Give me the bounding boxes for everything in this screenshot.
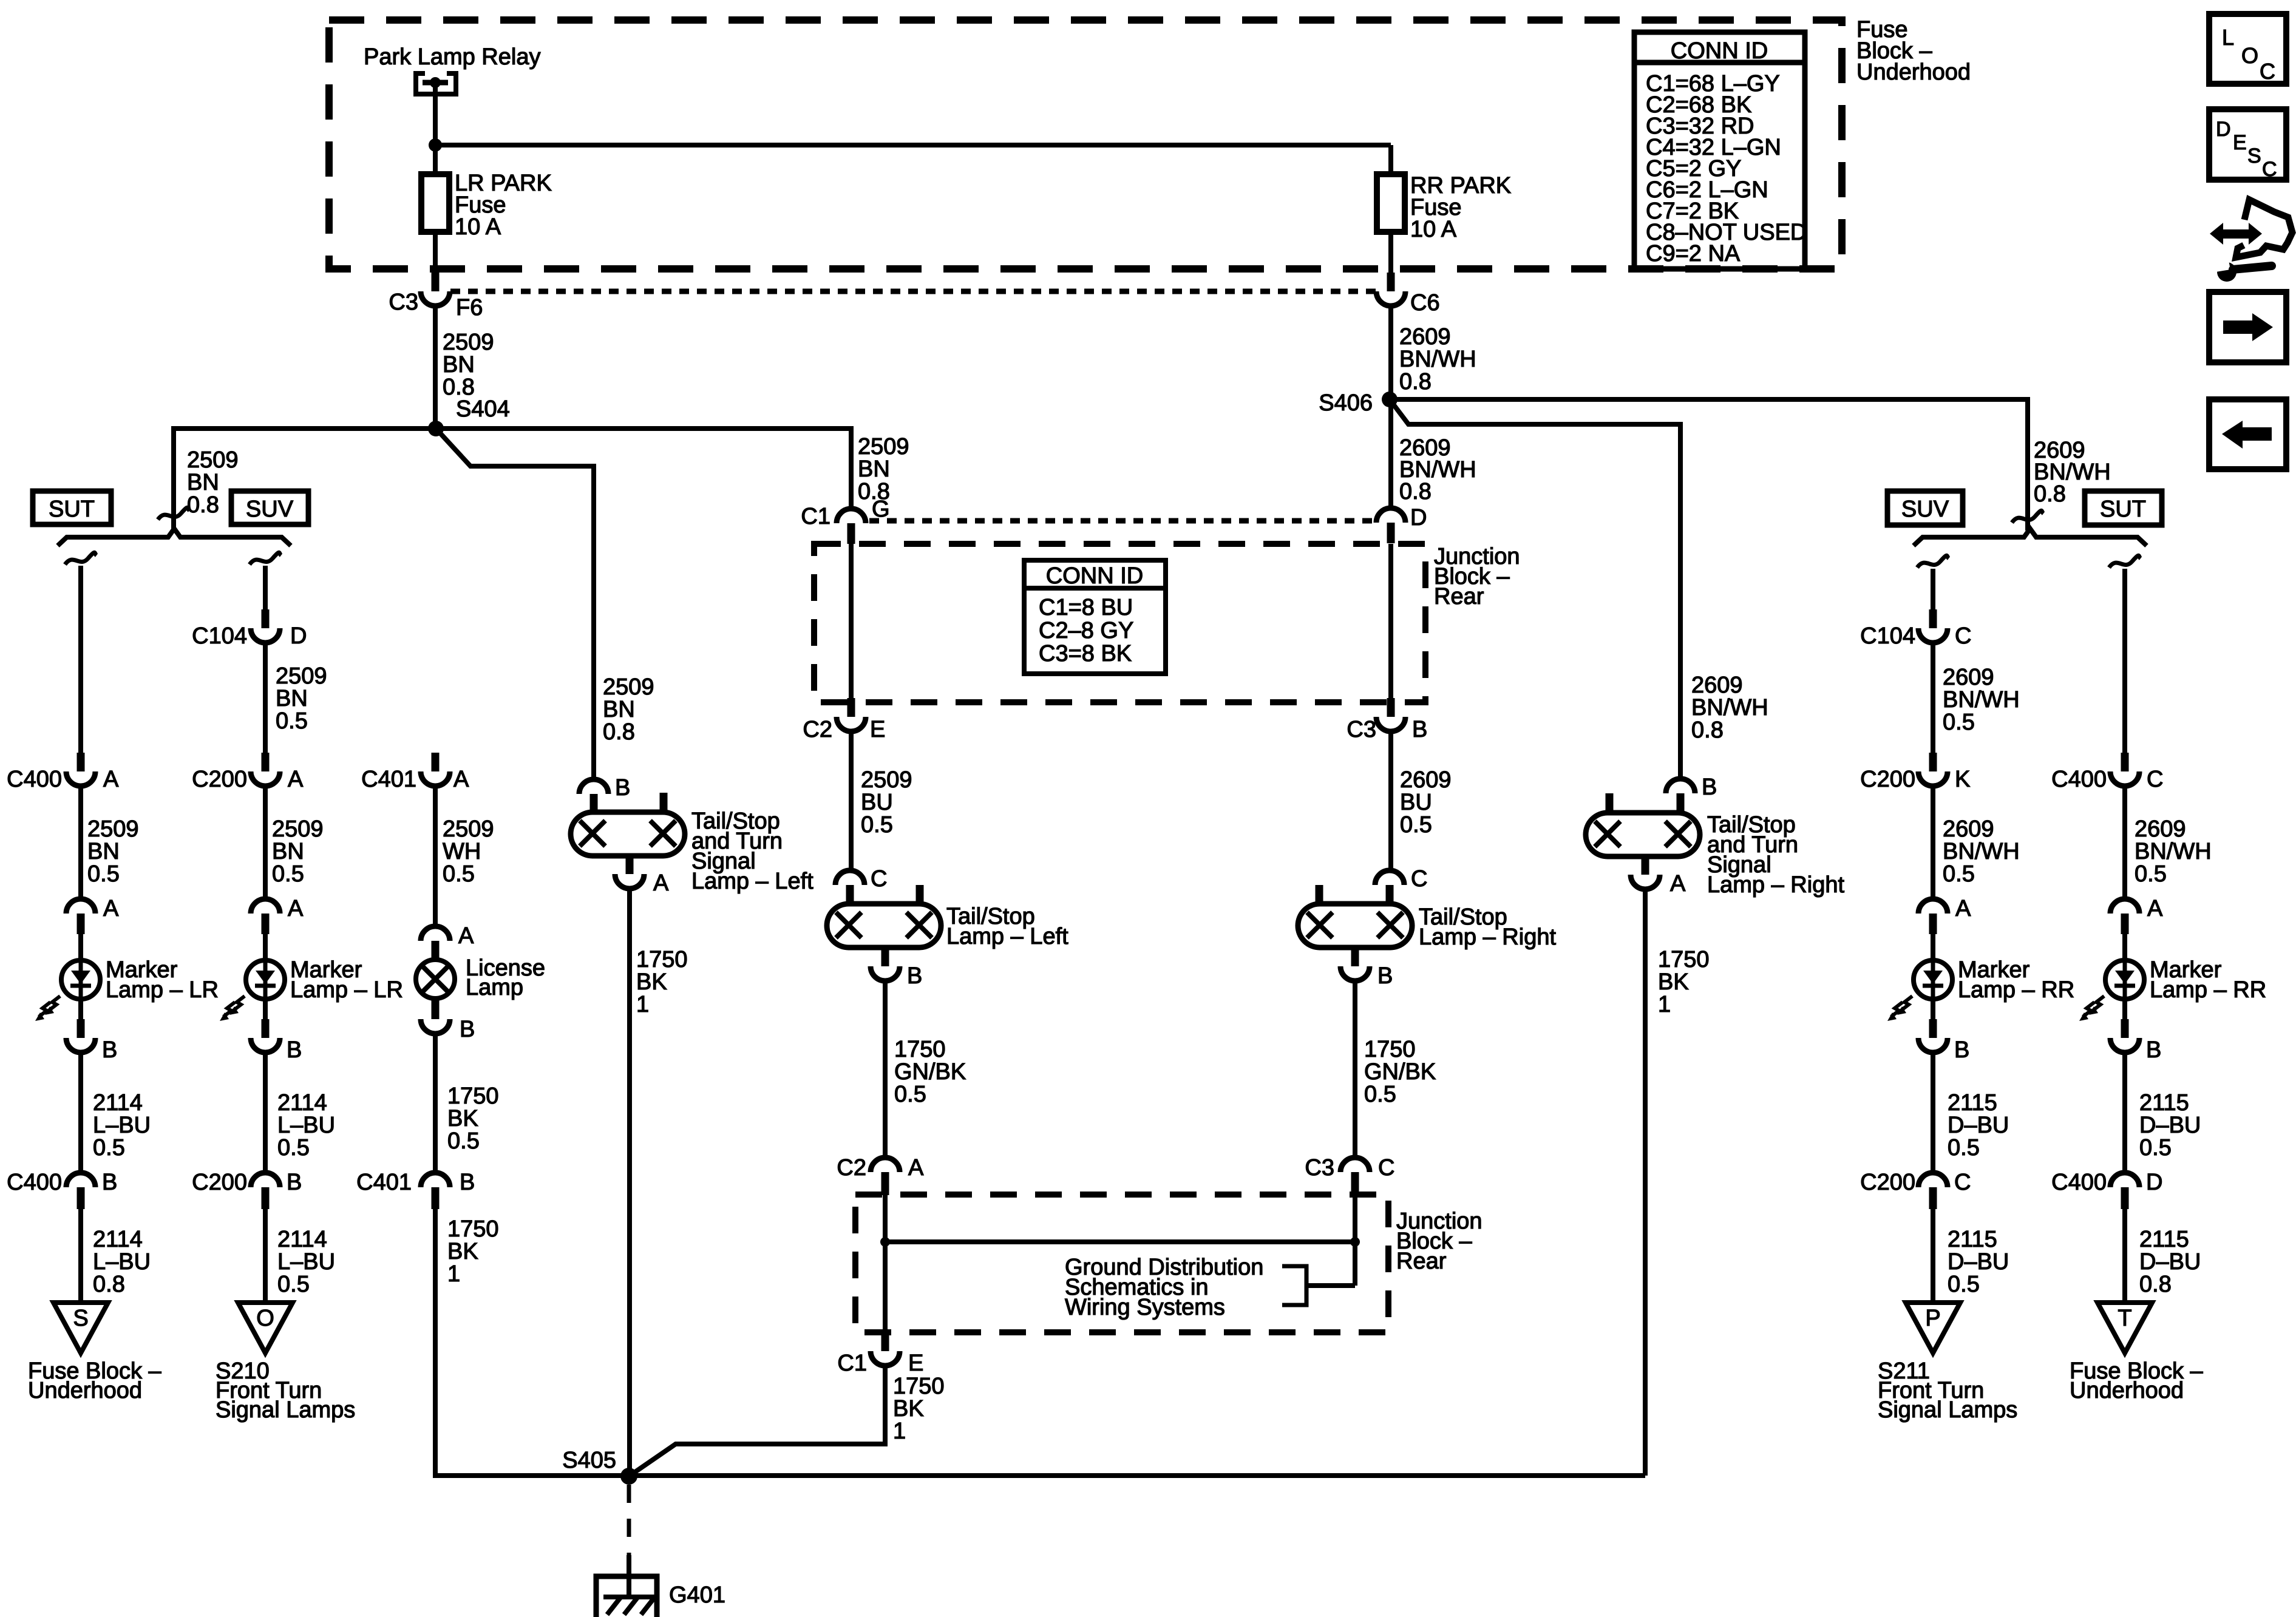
svg-text:0.5: 0.5 <box>272 861 304 887</box>
svg-text:D: D <box>2146 1170 2162 1195</box>
node lower box left <box>880 1237 890 1247</box>
svg-text:A: A <box>908 1155 924 1181</box>
svg-text:Underhood: Underhood <box>2070 1378 2184 1403</box>
wire C400D to triangle rcol2 <box>2122 1208 2127 1304</box>
connector A marker LR left1 <box>66 899 95 914</box>
svg-text:D: D <box>2216 118 2231 141</box>
svg-text:2509: 2509 <box>187 447 239 473</box>
svg-text:1: 1 <box>447 1261 460 1287</box>
svg-text:S: S <box>2247 144 2261 168</box>
connector D junction block <box>1376 508 1405 523</box>
icon arrow right box <box>2209 292 2286 362</box>
connector C3 F6 <box>432 273 440 291</box>
svg-text:E: E <box>2233 131 2247 154</box>
svg-text:B: B <box>460 1170 475 1195</box>
svg-text:Lamp – Right: Lamp – Right <box>1419 924 1556 950</box>
svg-text:1750: 1750 <box>636 947 688 972</box>
svg-text:B: B <box>1702 775 1717 800</box>
svg-text:CONN ID: CONN ID <box>1046 563 1143 589</box>
fuse RR PARK F2 <box>1377 174 1405 232</box>
svg-text:Lamp – LR: Lamp – LR <box>106 977 219 1003</box>
svg-text:2509: 2509 <box>603 674 654 700</box>
svg-text:2114: 2114 <box>93 1090 143 1116</box>
svg-text:C200: C200 <box>1860 1170 1915 1195</box>
wire top to RR fuse <box>1388 145 1393 174</box>
svg-text:Lamp – Left: Lamp – Left <box>946 924 1068 949</box>
svg-text:0.5: 0.5 <box>447 1128 480 1154</box>
connector C104 C <box>1929 609 1937 628</box>
wire C400B to triangle col1 <box>78 1208 83 1304</box>
svg-text:C2–8 GY: C2–8 GY <box>1039 618 1133 643</box>
connector C400 C <box>2121 753 2129 771</box>
svg-text:BU: BU <box>861 790 893 815</box>
svg-text:0.5: 0.5 <box>276 708 308 734</box>
svg-text:C200: C200 <box>1860 767 1915 792</box>
svg-text:C400: C400 <box>7 1170 62 1195</box>
svg-text:1750: 1750 <box>447 1216 499 1242</box>
wire S404 left branch <box>174 429 436 529</box>
svg-text:BN/WH: BN/WH <box>1691 695 1768 720</box>
svg-text:Signal Lamps: Signal Lamps <box>1878 1397 2017 1423</box>
connector A marker LR left2 <box>251 899 280 914</box>
svg-text:S: S <box>73 1306 88 1331</box>
connector C401 A <box>432 753 440 771</box>
svg-text:0.5: 0.5 <box>2135 861 2167 887</box>
svg-text:2114: 2114 <box>277 1090 327 1116</box>
svg-text:2509: 2509 <box>861 767 912 793</box>
svg-text:BN: BN <box>443 352 475 378</box>
marker lamp RR 1 <box>1914 960 1952 999</box>
wire C401A to A <box>433 786 438 927</box>
svg-text:G: G <box>872 497 890 522</box>
license lamp <box>416 960 455 998</box>
svg-text:C200: C200 <box>192 1170 247 1195</box>
connector C3 C <box>1340 1158 1370 1172</box>
tail stop lamp left <box>827 904 941 947</box>
svg-text:2509: 2509 <box>858 434 909 459</box>
wire B to C200B col2 <box>263 1053 268 1174</box>
svg-text:0.8: 0.8 <box>2139 1272 2172 1297</box>
svg-text:BK: BK <box>893 1396 924 1422</box>
svg-text:A: A <box>103 896 119 921</box>
fuse block underhood dashed box <box>329 20 1842 269</box>
svg-text:S406: S406 <box>1319 390 1373 416</box>
svg-text:0.5: 0.5 <box>277 1272 310 1297</box>
wire D through junction box <box>1388 544 1393 703</box>
connector C200 K <box>1929 753 1937 771</box>
svg-text:C3: C3 <box>389 290 418 315</box>
svg-text:C6: C6 <box>1410 290 1440 316</box>
svg-text:F6: F6 <box>456 295 483 320</box>
svg-text:D–BU: D–BU <box>2139 1249 2201 1275</box>
junction block rear upper dashed box <box>814 544 1425 702</box>
wire SUT right col <box>2122 569 2127 753</box>
svg-text:C: C <box>1378 1155 1394 1181</box>
tail stop turn lamp right <box>1586 813 1700 856</box>
svg-text:B: B <box>460 1017 475 1042</box>
svg-text:Lamp – Right: Lamp – Right <box>1707 872 1844 898</box>
svg-text:A: A <box>2147 896 2163 921</box>
svg-text:O: O <box>256 1306 274 1331</box>
wire S405 to ground dashed <box>627 1485 631 1555</box>
marker lamp LR 1 <box>61 960 100 999</box>
squiggle SUV right top <box>1917 555 1949 568</box>
svg-text:0.5: 0.5 <box>2139 1135 2172 1161</box>
svg-text:2509: 2509 <box>443 816 494 842</box>
svg-text:B: B <box>287 1037 302 1063</box>
svg-text:Lamp – RR: Lamp – RR <box>1958 977 2074 1003</box>
svg-text:2115: 2115 <box>1948 1227 1997 1252</box>
svg-text:0.5: 0.5 <box>1948 1135 1980 1161</box>
wire C200A to A <box>263 786 268 900</box>
tag SUV left <box>231 491 308 524</box>
conn id table top <box>1634 32 1805 269</box>
svg-text:A: A <box>653 870 669 896</box>
svg-text:B: B <box>907 963 922 989</box>
svg-text:C401: C401 <box>356 1170 412 1195</box>
svg-text:C: C <box>2262 158 2277 181</box>
connector C401 B <box>421 1173 450 1187</box>
connector B license lamp <box>432 999 440 1019</box>
tail lamp left pin stub <box>916 885 924 904</box>
svg-text:BN/WH: BN/WH <box>1943 687 2020 713</box>
conn id table small <box>1024 560 1166 674</box>
svg-text:Underhood: Underhood <box>28 1378 142 1403</box>
svg-text:C2: C2 <box>837 1155 866 1181</box>
wire G through junction box <box>849 544 854 703</box>
svg-text:WH: WH <box>443 839 481 864</box>
wire S406 right branch <box>1390 399 2028 531</box>
wire C400C to A <box>2122 786 2127 900</box>
svg-text:BU: BU <box>1400 790 1432 815</box>
svg-text:0.5: 0.5 <box>1364 1082 1396 1107</box>
svg-text:Rear: Rear <box>1434 584 1484 609</box>
connector B tail lamp right <box>1351 947 1359 966</box>
svg-text:1750: 1750 <box>1364 1037 1416 1062</box>
svg-text:0.8: 0.8 <box>1399 369 1432 395</box>
svg-text:O: O <box>2241 43 2258 68</box>
svg-text:A: A <box>288 767 304 792</box>
svg-text:GN/BK: GN/BK <box>894 1059 966 1085</box>
tail stop turn lamp left <box>571 812 685 856</box>
svg-text:C1: C1 <box>801 504 830 529</box>
tail lamp right X marks <box>1307 912 1333 938</box>
icon hand wrench <box>2236 200 2292 257</box>
svg-text:D–BU: D–BU <box>1948 1249 2009 1275</box>
svg-text:SUV: SUV <box>1901 497 1949 522</box>
wire C400A to A <box>78 786 83 900</box>
wire lower box right vertical <box>1353 1195 1357 1242</box>
wire lower box left vertical <box>883 1195 888 1335</box>
icon DESC box <box>2209 109 2286 180</box>
connector A license lamp <box>421 926 450 941</box>
svg-text:BK: BK <box>447 1106 478 1131</box>
svg-text:BN: BN <box>858 456 890 482</box>
tst lamp right pin stub <box>1606 793 1614 812</box>
svg-text:CONN ID: CONN ID <box>1671 38 1768 64</box>
svg-text:C: C <box>2147 767 2163 792</box>
tag SUT right <box>2085 491 2162 525</box>
wire C200B to triangle col2 <box>263 1208 268 1304</box>
wire C1E to S405 <box>629 1366 885 1476</box>
svg-text:B: B <box>102 1170 117 1195</box>
marker lamp RR 2 <box>2105 960 2144 999</box>
wire S406 diagonal branch <box>1390 399 1680 780</box>
svg-text:1750: 1750 <box>894 1037 946 1062</box>
junction block rear lower dashed box <box>855 1195 1388 1332</box>
svg-text:2115: 2115 <box>2139 1090 2189 1116</box>
svg-text:A: A <box>1670 871 1686 897</box>
svg-text:1750: 1750 <box>447 1083 499 1109</box>
svg-text:C3=8 BK: C3=8 BK <box>1039 641 1132 666</box>
dotted line fuse block bottom <box>450 289 1376 294</box>
svg-text:C1: C1 <box>837 1351 867 1376</box>
svg-text:GN/BK: GN/BK <box>1364 1059 1436 1085</box>
offpage triangle P <box>1906 1303 1960 1353</box>
connector C400 D <box>2110 1173 2139 1187</box>
ground G401 <box>627 1555 631 1597</box>
svg-text:C: C <box>1411 866 1427 892</box>
svg-text:L–BU: L–BU <box>93 1249 151 1275</box>
wire C3B to C cup <box>1388 731 1393 872</box>
splice S404 <box>428 421 444 436</box>
wire S406 to D <box>1388 399 1393 509</box>
svg-text:2509: 2509 <box>443 330 494 355</box>
splice S406 <box>1382 392 1398 407</box>
svg-text:BN/WH: BN/WH <box>1399 347 1476 372</box>
tag SUV right <box>1887 491 1963 525</box>
svg-text:0.8: 0.8 <box>1691 717 1724 743</box>
wire tst right A to S405 <box>1643 889 1648 1476</box>
svg-text:0.5: 0.5 <box>277 1135 310 1161</box>
connector B tst lamp left <box>579 779 608 794</box>
svg-text:2609: 2609 <box>1400 767 1452 793</box>
connector A tst lamp left <box>626 856 634 874</box>
svg-text:K: K <box>1955 767 1970 792</box>
svg-text:2609: 2609 <box>1943 816 1994 842</box>
svg-text:C104: C104 <box>1860 623 1915 649</box>
svg-text:0.5: 0.5 <box>93 1135 125 1161</box>
svg-text:C1=8 BU: C1=8 BU <box>1039 595 1133 620</box>
wire C104C to C200K <box>1931 643 1935 753</box>
svg-text:B: B <box>615 775 630 801</box>
svg-text:A: A <box>1955 896 1971 921</box>
wire C2E to C cup <box>849 731 854 872</box>
svg-text:L–BU: L–BU <box>277 1249 335 1275</box>
svg-text:BK: BK <box>447 1239 478 1264</box>
connector B marker RR right2 <box>2122 998 2127 1021</box>
svg-text:BN: BN <box>603 697 635 722</box>
svg-text:2115: 2115 <box>1948 1090 1997 1116</box>
svg-text:0.5: 0.5 <box>861 812 893 838</box>
connector A marker RR right2 <box>2110 899 2139 914</box>
svg-text:BN: BN <box>187 470 219 495</box>
wire node to LR fuse <box>433 145 438 174</box>
svg-text:BN: BN <box>272 839 304 864</box>
connector C400 B <box>66 1173 95 1187</box>
svg-text:Wiring Systems: Wiring Systems <box>1065 1295 1225 1320</box>
svg-text:P: P <box>1925 1306 1940 1331</box>
svg-text:B: B <box>2146 1037 2161 1063</box>
svg-text:B: B <box>1377 963 1393 989</box>
svg-text:0.8: 0.8 <box>1399 479 1432 504</box>
connector B marker LR left1 <box>78 998 83 1021</box>
svg-text:B: B <box>1412 717 1427 742</box>
svg-text:10 A: 10 A <box>1410 217 1457 242</box>
dotted line junction row <box>869 518 1373 524</box>
tst lamp left pin stub <box>660 793 668 812</box>
wire LR fuse to C3 <box>433 232 438 274</box>
svg-text:Lamp: Lamp <box>466 975 523 1000</box>
svg-text:C: C <box>1954 1170 1971 1195</box>
tail lamp left X marks <box>836 912 861 938</box>
svg-text:B: B <box>287 1170 302 1195</box>
svg-text:0.5: 0.5 <box>1948 1272 1980 1297</box>
connector B tst lamp right <box>1666 779 1695 793</box>
wire F6 to S404 <box>433 306 438 430</box>
wire C104D to C200A <box>263 643 268 753</box>
svg-text:2609: 2609 <box>1399 324 1451 350</box>
tag SUT left <box>33 491 111 524</box>
wire B to C401B <box>433 1034 438 1174</box>
wire to marker lamp rcol1 <box>1931 934 1935 960</box>
fuse LR PARK F1 <box>421 174 449 232</box>
squiggle right branch break <box>2012 510 2043 523</box>
tail lamp right pin stub <box>1316 885 1323 904</box>
svg-text:0.5: 0.5 <box>1943 861 1975 887</box>
svg-text:0.8: 0.8 <box>2034 481 2066 507</box>
svg-text:D–BU: D–BU <box>1948 1113 2009 1138</box>
wire S404 right branch <box>436 429 851 510</box>
svg-text:S404: S404 <box>456 396 510 422</box>
connector C104 D <box>262 609 270 628</box>
wire SUV right col top <box>1931 569 1935 611</box>
svg-text:C9=2 NA: C9=2 NA <box>1646 241 1741 266</box>
wire SUV col top <box>263 566 268 610</box>
svg-text:Lamp – LR: Lamp – LR <box>290 977 403 1003</box>
connector C200 B <box>251 1173 280 1187</box>
splice S405 <box>620 1468 637 1485</box>
svg-text:Underhood: Underhood <box>1856 59 1971 85</box>
connector B marker RR right1 <box>1931 998 1935 1021</box>
svg-text:0.5: 0.5 <box>443 861 475 887</box>
wire to marker lamp rcol2 <box>2122 934 2127 960</box>
connector C1 G <box>837 509 866 523</box>
svg-text:BK: BK <box>636 969 667 995</box>
svg-text:2609: 2609 <box>1691 673 1743 698</box>
svg-text:Rear: Rear <box>1396 1249 1447 1274</box>
wire tail right B to C3C <box>1353 981 1357 1159</box>
icon arrow left box <box>2209 399 2286 469</box>
wire SUT col upper <box>78 566 83 753</box>
wire B to C400B col1 <box>78 1053 83 1174</box>
svg-text:1750: 1750 <box>893 1374 945 1399</box>
svg-text:Lamp – Left: Lamp – Left <box>691 869 813 894</box>
svg-text:L–BU: L–BU <box>277 1113 335 1138</box>
tst lamp left X marks <box>580 821 605 846</box>
svg-text:BN/WH: BN/WH <box>2135 839 2212 864</box>
svg-text:2509: 2509 <box>272 816 324 842</box>
svg-text:2114: 2114 <box>277 1227 327 1252</box>
svg-text:E: E <box>908 1351 923 1376</box>
svg-text:B: B <box>1954 1037 1969 1063</box>
wire top horizontal <box>433 143 1391 147</box>
wire tail left B to C2A <box>883 981 888 1159</box>
connector C2 A <box>871 1158 900 1172</box>
svg-text:T: T <box>2118 1306 2131 1331</box>
svg-text:2609: 2609 <box>1943 665 1994 690</box>
wire S404 diagonal branch <box>436 429 594 781</box>
wire C401B to S405 line <box>435 1208 620 1476</box>
svg-text:L: L <box>2222 25 2234 50</box>
squiggle left branch break <box>158 507 189 520</box>
svg-text:Park Lamp Relay: Park Lamp Relay <box>364 44 540 70</box>
brace right <box>1914 529 2147 546</box>
svg-text:C401: C401 <box>361 767 416 792</box>
connector C2 E <box>847 698 855 717</box>
wire to marker lamp col2 <box>263 934 268 960</box>
svg-text:D: D <box>290 623 307 649</box>
svg-text:2114: 2114 <box>93 1227 143 1252</box>
wire RR fuse to C6 <box>1388 232 1393 274</box>
svg-text:0.5: 0.5 <box>894 1082 926 1107</box>
park lamp relay contact <box>416 73 456 94</box>
svg-text:0.5: 0.5 <box>1943 710 1975 735</box>
wire C200K to A <box>1931 786 1935 900</box>
wire relay to node <box>433 83 438 146</box>
svg-text:A: A <box>458 923 474 949</box>
svg-text:A: A <box>453 767 469 792</box>
svg-text:SUV: SUV <box>246 497 294 522</box>
svg-text:2509: 2509 <box>276 663 327 689</box>
svg-text:0.8: 0.8 <box>603 719 635 745</box>
svg-text:0.8: 0.8 <box>93 1272 125 1297</box>
connector C1 E <box>881 1332 889 1351</box>
connector A tst lamp right <box>1642 856 1649 875</box>
svg-text:S405: S405 <box>562 1448 616 1473</box>
svg-text:0.5: 0.5 <box>87 861 120 887</box>
svg-text:B: B <box>102 1037 117 1063</box>
svg-text:G401: G401 <box>669 1582 725 1608</box>
svg-text:1750: 1750 <box>1658 947 1710 972</box>
connector C3 B <box>1387 698 1395 717</box>
svg-text:2115: 2115 <box>2139 1227 2189 1252</box>
svg-text:BN: BN <box>87 839 120 864</box>
wire B to C200C rcol1 <box>1931 1053 1935 1174</box>
svg-text:C200: C200 <box>192 767 247 792</box>
tail stop lamp right <box>1298 904 1412 947</box>
svg-text:10 A: 10 A <box>455 214 501 240</box>
svg-text:0.5: 0.5 <box>1400 812 1432 838</box>
svg-text:SUT: SUT <box>2100 497 2146 522</box>
svg-text:SUT: SUT <box>49 497 95 522</box>
svg-text:C: C <box>871 866 887 892</box>
svg-text:C3: C3 <box>1347 717 1376 742</box>
svg-text:C104: C104 <box>192 623 247 649</box>
connector C tail lamp left <box>835 870 864 885</box>
connector C400 A <box>77 753 85 771</box>
svg-text:2609: 2609 <box>2135 816 2186 842</box>
svg-text:C400: C400 <box>7 767 62 792</box>
connector C200 C <box>1918 1173 1948 1187</box>
wire lower box horizontal <box>885 1239 1355 1244</box>
connector A marker RR right1 <box>1918 899 1948 914</box>
svg-text:2509: 2509 <box>87 816 139 842</box>
svg-text:0.8: 0.8 <box>187 492 219 518</box>
squiggle SUV left top <box>250 552 281 564</box>
svg-text:BN/WH: BN/WH <box>1943 839 2020 864</box>
offpage triangle O <box>238 1303 293 1353</box>
